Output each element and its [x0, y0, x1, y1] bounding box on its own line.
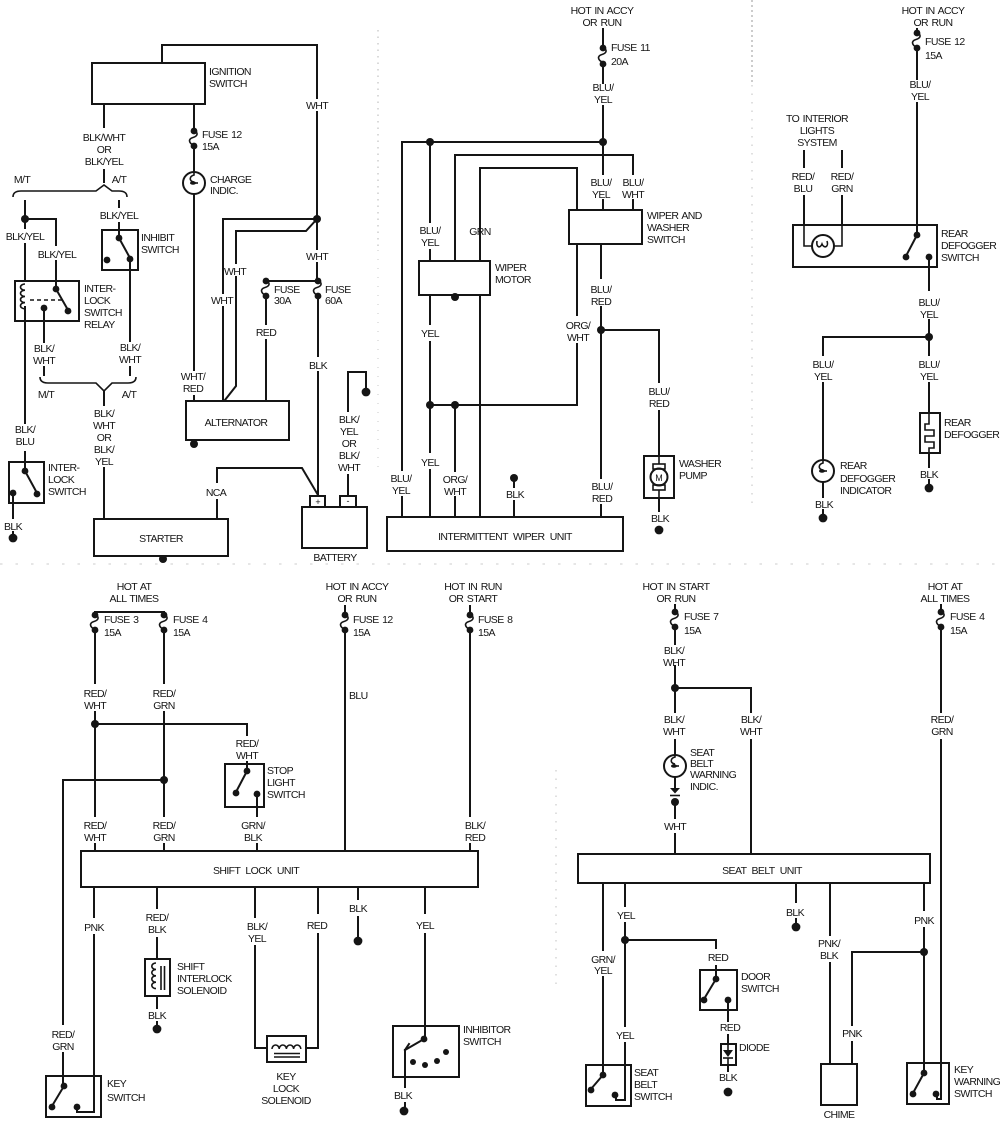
wire M/T branch	[24, 201, 26, 281]
svg-text:LOCK: LOCK	[84, 295, 111, 307]
svg-text:WHT: WHT	[306, 251, 329, 263]
wire interlock output BLK	[12, 493, 14, 534]
svg-text:INTER-: INTER-	[84, 283, 117, 295]
svg-text:BLK: BLK	[920, 469, 939, 481]
svg-text:YEL: YEL	[617, 910, 636, 922]
node starter ground dot	[159, 555, 167, 563]
wire BLK stub under unit	[795, 883, 797, 922]
svg-text:YEL: YEL	[920, 371, 939, 383]
svg-text:DEFOGGER: DEFOGGER	[944, 429, 1000, 441]
svg-text:BLU/: BLU/	[420, 225, 442, 237]
svg-text:RED: RED	[591, 296, 612, 308]
node hook terminal dot	[362, 388, 371, 397]
svg-text:SHIFT: SHIFT	[177, 961, 206, 973]
svg-text:LIGHTS: LIGHTS	[800, 125, 835, 137]
wire PNK to key warning switch	[923, 883, 925, 1063]
wire diode ground BLK	[727, 1065, 729, 1071]
svg-text:WHT: WHT	[84, 700, 107, 712]
svg-text:YEL: YEL	[594, 965, 613, 977]
svg-text:GRN: GRN	[469, 226, 491, 238]
defogger switch contacts	[916, 225, 918, 235]
svg-text:RED: RED	[720, 1022, 741, 1034]
wire key switch PNK return	[77, 1076, 94, 1112]
svg-text:IGNITION: IGNITION	[209, 66, 251, 78]
diode (indicator)	[670, 788, 680, 794]
svg-text:PNK: PNK	[84, 922, 104, 934]
wire BLU to unit	[344, 630, 346, 851]
svg-text:MOTOR: MOTOR	[495, 274, 532, 286]
svg-text:BLU: BLU	[794, 183, 813, 195]
svg-text:GRN: GRN	[153, 700, 175, 712]
wire RED to alternator	[265, 296, 267, 401]
svg-text:WASHER: WASHER	[647, 222, 690, 234]
svg-text:HOT IN ACCY: HOT IN ACCY	[902, 5, 965, 17]
wire ORG/WHT from switch to bus4	[576, 244, 578, 405]
svg-text:WHT: WHT	[33, 355, 56, 367]
svg-text:CHIME: CHIME	[824, 1109, 855, 1121]
node inhibitor ground dot	[400, 1107, 409, 1116]
svg-text:YEL: YEL	[920, 309, 939, 321]
svg-text:INTERLOCK: INTERLOCK	[177, 973, 232, 985]
battery box	[302, 507, 367, 548]
fuse 4 15A	[161, 612, 168, 619]
wire RED to key lock solenoid	[306, 887, 318, 1048]
svg-text:BLK/: BLK/	[664, 645, 685, 657]
node bus4 mid junction	[451, 401, 459, 409]
interlock switch contacts	[24, 462, 26, 471]
svg-text:RED: RED	[307, 920, 328, 932]
svg-text:HOT IN RUN: HOT IN RUN	[444, 581, 501, 593]
svg-text:YEL: YEL	[421, 237, 440, 249]
svg-text:WIPER: WIPER	[495, 262, 527, 274]
wire bus2 motor to switch BLU/WHT	[455, 155, 633, 261]
svg-text:YEL: YEL	[95, 456, 114, 468]
node YEL junction	[621, 936, 629, 944]
svg-text:SWITCH: SWITCH	[954, 1088, 992, 1100]
wire A/T branch	[118, 201, 120, 230]
svg-text:REAR: REAR	[840, 460, 868, 472]
svg-text:FUSE 12: FUSE 12	[202, 129, 242, 141]
svg-text:LOCK: LOCK	[48, 474, 75, 486]
svg-text:15A: 15A	[925, 50, 942, 62]
svg-text:WHT: WHT	[224, 266, 247, 278]
relay coil	[20, 284, 25, 309]
svg-text:WHT: WHT	[567, 332, 590, 344]
node BLK/YEL junction	[21, 215, 29, 223]
svg-text:BLU/: BLU/	[649, 386, 671, 398]
key warning switch box	[907, 1063, 949, 1104]
svg-text:SEAT: SEAT	[634, 1067, 659, 1079]
wire inhibitor output BLK	[404, 1050, 406, 1106]
node BLK ground dot	[354, 937, 363, 946]
divider dotted vertical middle	[751, 0, 753, 85]
svg-text:YEL: YEL	[248, 933, 267, 945]
shift interlock solenoid box	[145, 959, 170, 996]
wire YEL to junction	[616, 883, 625, 1100]
svg-text:INDIC.: INDIC.	[210, 185, 238, 197]
brace M/T-A/T upper	[13, 185, 127, 197]
svg-text:BLK/YEL: BLK/YEL	[85, 156, 124, 168]
svg-text:M/T: M/T	[38, 389, 55, 401]
svg-text:INHIBIT: INHIBIT	[141, 232, 175, 244]
svg-text:BLK/: BLK/	[339, 414, 360, 426]
svg-text:ALTERNATOR: ALTERNATOR	[205, 417, 269, 429]
svg-text:SWITCH: SWITCH	[741, 983, 779, 995]
svg-text:SWITCH: SWITCH	[141, 244, 179, 256]
svg-text:PNK: PNK	[914, 915, 934, 927]
svg-text:WASHER: WASHER	[679, 458, 722, 470]
node wiper bus junction	[599, 138, 607, 146]
svg-text:BLK: BLK	[786, 907, 805, 919]
svg-text:WIPER AND: WIPER AND	[647, 210, 703, 222]
wire BLK to battery	[317, 296, 319, 496]
washer pump motor symbol	[658, 456, 660, 498]
wire YEL to inhibitor switch	[424, 887, 426, 1026]
svg-text:BLK/: BLK/	[741, 714, 762, 726]
wire branch to stop light switch	[95, 724, 247, 764]
wire defogger switch output	[928, 257, 930, 337]
svg-text:HOT AT: HOT AT	[928, 581, 964, 593]
node wiper motor bottom terminal	[451, 293, 459, 301]
svg-text:BELT: BELT	[634, 1079, 658, 1091]
wire fuse 11 to bus	[602, 64, 604, 142]
chime box	[821, 1064, 857, 1105]
svg-text:INDICATOR: INDICATOR	[840, 485, 892, 497]
svg-text:BLU/: BLU/	[593, 82, 615, 94]
svg-text:A/T: A/T	[122, 389, 138, 401]
svg-text:SWITCH: SWITCH	[84, 307, 122, 319]
door switch contacts	[715, 970, 717, 979]
shift lock unit box	[81, 851, 478, 887]
svg-text:60A: 60A	[325, 295, 342, 307]
svg-text:TO INTERIOR: TO INTERIOR	[786, 113, 849, 125]
svg-text:GRN: GRN	[931, 726, 953, 738]
fuse 30A	[263, 278, 270, 285]
divider dotted vertical left	[377, 30, 379, 250]
wire interior lights stub right	[841, 151, 843, 225]
svg-text:FUSE 4: FUSE 4	[950, 611, 985, 623]
svg-text:RED/: RED/	[792, 171, 815, 183]
wire hot lead fuse 12	[344, 606, 346, 615]
wire BLK/WHT left to indicator	[674, 688, 676, 754]
wire branch to indicator	[823, 337, 929, 460]
svg-text:OR: OR	[342, 438, 358, 450]
wire GRN motor to unit	[479, 295, 481, 517]
svg-text:YEL: YEL	[416, 920, 435, 932]
svg-text:BLU: BLU	[16, 436, 35, 448]
svg-text:BLU/: BLU/	[591, 177, 613, 189]
svg-text:INHIBITOR: INHIBITOR	[463, 1024, 512, 1036]
svg-text:WARNING: WARNING	[690, 769, 737, 781]
svg-text:SWITCH: SWITCH	[107, 1092, 145, 1104]
inhibitor switch blade	[424, 1026, 426, 1039]
svg-text:15A: 15A	[104, 627, 121, 639]
inhibitor switch box	[393, 1026, 459, 1077]
svg-text:RED: RED	[708, 952, 729, 964]
svg-text:REAR: REAR	[944, 417, 972, 429]
svg-text:FUSE 8: FUSE 8	[478, 614, 513, 626]
node BLK stub dot (unit)	[510, 474, 518, 482]
svg-text:BLK: BLK	[148, 924, 167, 936]
svg-text:DOOR: DOOR	[741, 971, 771, 983]
svg-text:HOT AT: HOT AT	[117, 581, 153, 593]
wire door switch output RED	[727, 1000, 729, 1044]
svg-text:LOCK: LOCK	[273, 1083, 300, 1095]
wire RED/BLK to solenoid	[156, 887, 158, 959]
svg-text:BLK/: BLK/	[339, 450, 360, 462]
svg-text:WHT: WHT	[236, 750, 259, 762]
svg-text:RED: RED	[465, 832, 486, 844]
svg-text:+: +	[315, 497, 320, 507]
svg-text:SWITCH: SWITCH	[941, 252, 979, 264]
wire BLK/YEL OR BLK/WHT hook	[348, 372, 366, 496]
wire fuse 12 to defogger switch	[916, 48, 918, 225]
svg-text:PUMP: PUMP	[679, 470, 708, 482]
node WHT bus junction	[313, 215, 321, 223]
svg-text:RED: RED	[183, 383, 204, 395]
svg-text:RED: RED	[256, 327, 277, 339]
wire relay output BLK/WHT	[43, 308, 45, 375]
rear defogger indicator lamp	[812, 460, 834, 482]
fuse 3 15A	[92, 612, 99, 619]
svg-text:BLK/WHT: BLK/WHT	[83, 132, 127, 144]
wire defogger element feed	[928, 337, 930, 413]
svg-text:SOLENOID: SOLENOID	[261, 1095, 311, 1107]
svg-text:YEL: YEL	[592, 189, 611, 201]
svg-text:FUSE 11: FUSE 11	[611, 42, 651, 54]
fuse 4 15A (seat belt)	[938, 609, 945, 616]
svg-text:RED/: RED/	[831, 171, 854, 183]
node washer branch junction	[597, 326, 605, 334]
node PNK junction	[920, 948, 928, 956]
wire branch to key switch	[63, 780, 164, 1076]
node diode ground dot	[724, 1088, 733, 1097]
wire hot lead fuse 8	[469, 606, 471, 615]
svg-text:SHIFT LOCK UNIT: SHIFT LOCK UNIT	[213, 865, 300, 877]
svg-text:WHT/: WHT/	[181, 371, 206, 383]
svg-text:BLK/: BLK/	[34, 343, 55, 355]
wire BLK stub to unit	[513, 478, 515, 517]
wire bus4	[430, 404, 577, 406]
node RED/WHT branch junction	[91, 720, 99, 728]
svg-text:SWITCH: SWITCH	[634, 1091, 672, 1103]
svg-text:OR RUN: OR RUN	[582, 17, 621, 29]
svg-text:BLU/: BLU/	[592, 481, 614, 493]
svg-text:SYSTEM: SYSTEM	[797, 137, 837, 149]
wire WHT main vertical	[316, 45, 318, 281]
svg-text:BLU/: BLU/	[910, 79, 932, 91]
relay contacts and blade	[55, 281, 57, 289]
wire BLK stub	[357, 887, 359, 936]
svg-text:OR RUN: OR RUN	[913, 17, 952, 29]
charge indicator lamp	[183, 172, 205, 194]
svg-text:WHT: WHT	[93, 420, 116, 432]
wire indicator to diode	[674, 777, 676, 787]
inhibitor contact dots	[410, 1059, 416, 1065]
svg-text:GRN: GRN	[153, 832, 175, 844]
svg-text:SWITCH: SWITCH	[48, 486, 86, 498]
svg-text:BLK/: BLK/	[120, 342, 141, 354]
wire BLU/RED switch to unit	[600, 244, 602, 517]
wire PNK branch to chime	[852, 952, 924, 1064]
seat belt switch box	[586, 1065, 631, 1106]
node pump ground dot	[655, 526, 664, 535]
svg-text:BLU/: BLU/	[919, 359, 941, 371]
svg-text:15A: 15A	[684, 625, 701, 637]
svg-text:WHT: WHT	[211, 295, 234, 307]
defogger element symbol	[925, 413, 934, 453]
svg-text:BLK: BLK	[506, 489, 525, 501]
solenoid coil	[152, 963, 156, 989]
fuse 12 15A (shift lock)	[342, 612, 349, 619]
wire PNK/BLK to chime	[829, 883, 831, 1064]
svg-text:OR START: OR START	[449, 593, 499, 605]
svg-text:30A: 30A	[274, 295, 291, 307]
svg-text:WHT: WHT	[444, 486, 467, 498]
svg-text:KEY: KEY	[107, 1078, 127, 1090]
svg-text:WHT: WHT	[306, 100, 329, 112]
svg-text:BLK: BLK	[244, 832, 263, 844]
svg-text:WHT: WHT	[663, 657, 686, 669]
seat belt unit box	[578, 854, 930, 883]
intermittent wiper unit box	[387, 517, 623, 551]
svg-text:RED: RED	[649, 398, 670, 410]
svg-text:BLU/: BLU/	[391, 473, 413, 485]
svg-text:BLK: BLK	[651, 513, 670, 525]
svg-text:BLU/: BLU/	[623, 177, 645, 189]
svg-text:WHT: WHT	[622, 189, 645, 201]
svg-text:M/T: M/T	[14, 174, 31, 186]
svg-text:WHT: WHT	[740, 726, 763, 738]
svg-text:STARTER: STARTER	[139, 533, 184, 545]
wire branch to door switch	[625, 940, 716, 970]
svg-text:RELAY: RELAY	[84, 319, 115, 331]
svg-text:PNK/: PNK/	[818, 938, 841, 950]
svg-text:SWITCH: SWITCH	[267, 789, 305, 801]
wire BLK/YEL to key lock solenoid	[255, 887, 267, 1048]
svg-text:RED/: RED/	[153, 688, 176, 700]
node indicator ground dot	[819, 514, 828, 523]
svg-text:BLK: BLK	[394, 1090, 413, 1102]
svg-text:BLK/YEL: BLK/YEL	[6, 231, 45, 243]
svg-text:BLK/: BLK/	[664, 714, 685, 726]
wire BLK/RED to unit	[469, 630, 471, 851]
wire charge indicator to alternator WHT/RED	[193, 194, 195, 401]
wire washer pump ground	[658, 498, 660, 511]
key switch contacts	[62, 1076, 64, 1086]
svg-text:BLK: BLK	[148, 1010, 167, 1022]
svg-text:OR RUN: OR RUN	[656, 593, 695, 605]
svg-text:YEL: YEL	[421, 328, 440, 340]
svg-text:BLK/: BLK/	[465, 820, 486, 832]
svg-text:WHT: WHT	[119, 354, 142, 366]
svg-text:-: -	[347, 496, 350, 506]
wire inhibit switch output	[129, 259, 131, 375]
fuse 7 15A	[672, 609, 679, 616]
key warning switch contacts	[923, 1063, 925, 1073]
brace M/T-A/T lower	[40, 377, 136, 391]
svg-text:WHT: WHT	[663, 726, 686, 738]
battery plus terminal	[310, 496, 325, 507]
svg-text:SWITCH: SWITCH	[647, 234, 685, 246]
wire indicator ground	[822, 482, 824, 513]
svg-text:BLK/: BLK/	[94, 408, 115, 420]
svg-text:YEL: YEL	[340, 426, 359, 438]
battery minus terminal	[340, 496, 356, 507]
svg-text:KEY: KEY	[954, 1064, 974, 1076]
node diode junction dot	[671, 798, 679, 806]
wire branch BLK/WHT right to unit	[675, 688, 751, 854]
interlock switch box	[9, 462, 44, 503]
svg-text:BLK/: BLK/	[247, 921, 268, 933]
svg-text:YEL: YEL	[421, 457, 440, 469]
svg-text:INTER-: INTER-	[48, 462, 81, 474]
key switch box	[46, 1076, 101, 1117]
wire ignition left output	[103, 104, 105, 182]
rear defogger switch box	[793, 225, 937, 267]
svg-text:15A: 15A	[202, 141, 219, 153]
svg-text:WHT: WHT	[338, 462, 361, 474]
wire fuse 12 lead from ignition	[193, 104, 195, 131]
wire fuse 7 to junction	[674, 627, 676, 688]
svg-text:HOT IN ACCY: HOT IN ACCY	[326, 581, 389, 593]
wire bus1 and far-left BLU/YEL to unit	[402, 142, 603, 517]
wire branch to relay contact	[25, 219, 56, 281]
wire YEL motor to unit	[429, 295, 431, 517]
svg-text:15A: 15A	[478, 627, 495, 639]
wire fuse 4 RED/GRN to unit	[163, 630, 165, 851]
svg-text:ALL TIMES: ALL TIMES	[110, 593, 160, 605]
inhibit switch contacts	[118, 230, 120, 238]
svg-text:ORG/: ORG/	[443, 474, 468, 486]
node defogger branch junction	[925, 333, 933, 341]
wire branch to washer pump	[601, 330, 659, 456]
divider dotted vertical bottom	[555, 770, 557, 990]
svg-text:RED/: RED/	[153, 820, 176, 832]
svg-text:OR: OR	[97, 432, 113, 444]
svg-text:WHT: WHT	[84, 832, 107, 844]
relay dashed link	[30, 299, 62, 301]
svg-text:RED: RED	[592, 493, 613, 505]
svg-text:LIGHT: LIGHT	[267, 777, 296, 789]
starter box	[94, 519, 228, 556]
fuse 12 15A (defogger)	[914, 30, 921, 37]
wire BLU/YEL to wiper motor	[429, 142, 431, 261]
wire bus3 GRN motor to switch	[480, 168, 577, 261]
wire fuse 3 RED/WHT to unit	[94, 630, 96, 851]
wire fuse top link	[266, 280, 318, 282]
key lock solenoid box	[267, 1036, 306, 1062]
svg-text:ALL TIMES: ALL TIMES	[921, 593, 971, 605]
svg-text:OR: OR	[97, 144, 113, 156]
washer pump box	[644, 456, 674, 498]
wire ORG/WHT bus4 to unit	[454, 405, 456, 517]
svg-text:BLK: BLK	[719, 1072, 738, 1084]
svg-text:DIODE: DIODE	[739, 1042, 770, 1054]
node bus4 left junction	[426, 401, 434, 409]
svg-text:A/T: A/T	[112, 174, 128, 186]
svg-text:BLK: BLK	[820, 950, 839, 962]
svg-text:INTERMITTENT WIPER UNIT: INTERMITTENT WIPER UNIT	[438, 531, 573, 543]
wire WHT to unit	[674, 802, 676, 854]
svg-text:BLK/YEL: BLK/YEL	[100, 210, 139, 222]
svg-text:HOT IN ACCY: HOT IN ACCY	[571, 5, 634, 17]
wiper and washer switch box	[569, 210, 642, 244]
node element ground dot	[925, 484, 934, 493]
wire A/T to starter	[103, 391, 105, 519]
svg-text:RED/: RED/	[84, 820, 107, 832]
interlock switch relay box	[15, 281, 79, 321]
